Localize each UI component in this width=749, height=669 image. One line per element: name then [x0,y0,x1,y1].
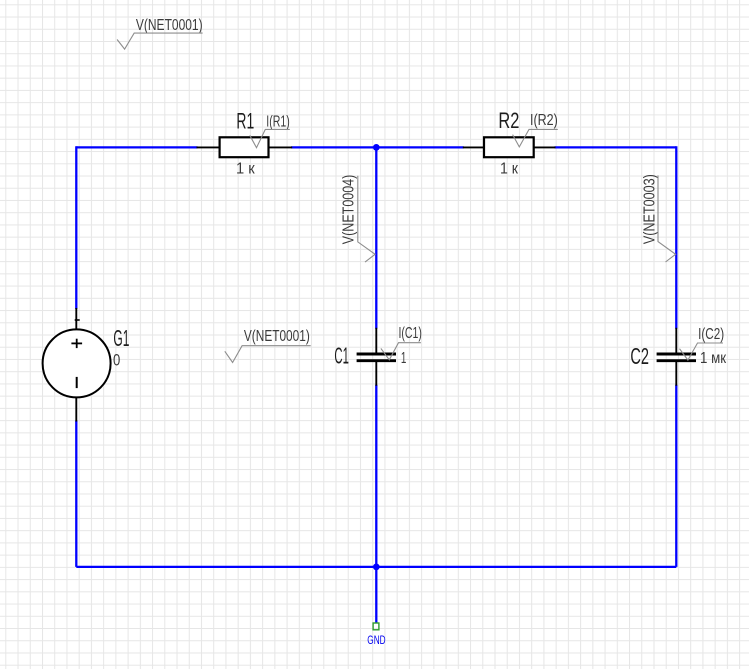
svg-text:I(R1): I(R1) [266,113,290,130]
svg-text:0: 0 [113,352,120,370]
probe V(NET0001) middle [225,328,311,363]
wire left vertical lower [75,421,77,567]
svg-text:I(C2): I(C2) [698,326,724,343]
wire left vertical upper [75,146,77,309]
probe I(C1) [381,325,422,360]
resistor R1 [197,108,293,177]
svg-text:V(NET0001): V(NET0001) [136,17,203,34]
svg-text:V(NET0004): V(NET0004) [341,175,358,245]
resistor R2 [463,108,556,178]
probe V(NET0003) [642,174,676,262]
wire right vertical lower [675,385,677,567]
svg-text:GND: GND [367,635,385,647]
svg-text:1: 1 [401,350,407,367]
voltage source G1 [43,308,130,422]
capacitor C1 [334,328,406,386]
svg-text:V(NET0001): V(NET0001) [244,328,310,345]
svg-text:1 к: 1 к [500,160,519,177]
probe I(C2) [680,326,725,360]
wire right vertical upper [675,146,677,328]
svg-text:1 мк: 1 мк [700,350,727,367]
svg-text:C1: C1 [334,343,349,369]
svg-text:C2: C2 [630,343,649,369]
probe V(NET0001) top [117,17,203,49]
probe V(NET0004) [341,175,376,262]
svg-text:G1: G1 [113,325,129,351]
svg-text:I(C1): I(C1) [399,325,422,342]
svg-text:R1: R1 [236,108,254,133]
junction dot top [373,144,380,151]
capacitor C2 [630,328,726,386]
wire top horizontal segment 2 [291,146,464,148]
svg-text:1 к: 1 к [236,160,256,177]
wire middle vertical lower [375,385,377,567]
junction dot bottom [373,564,380,571]
probe I(R1) [250,113,290,147]
wire top horizontal segment 3 [555,146,677,148]
wire middle vertical upper [375,147,377,328]
ground GND [367,623,385,647]
svg-text:V(NET0003): V(NET0003) [642,174,659,244]
wire bottom horizontal [76,566,676,568]
svg-text:R2: R2 [498,108,519,133]
wire GND stub [375,567,377,623]
wire top horizontal segment 1 [76,146,197,148]
svg-text:I(R2): I(R2) [530,112,558,129]
probe I(R2) [513,112,558,147]
